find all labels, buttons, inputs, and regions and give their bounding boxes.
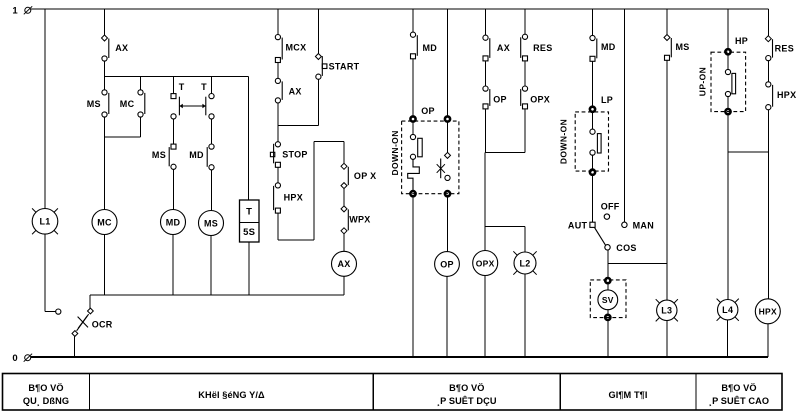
svg-text:MD: MD (423, 43, 438, 53)
svg-text:0: 0 (12, 353, 18, 364)
svg-text:1: 1 (12, 6, 18, 17)
svg-text:MD: MD (166, 217, 181, 227)
svg-text:LP: LP (601, 95, 613, 105)
svg-text:B¶O VÖ: B¶O VÖ (449, 383, 484, 393)
svg-text:UP-ON: UP-ON (698, 67, 708, 96)
svg-text:RES: RES (533, 43, 552, 53)
svg-text:L4: L4 (722, 305, 733, 315)
svg-text:AX: AX (337, 259, 350, 269)
svg-text:OFF: OFF (601, 202, 620, 212)
svg-text:MC: MC (120, 99, 135, 109)
svg-text:5S: 5S (243, 227, 255, 238)
svg-text:OP: OP (440, 259, 454, 269)
svg-text:OP: OP (421, 106, 435, 116)
svg-text:T: T (179, 82, 185, 92)
svg-text:MD: MD (601, 42, 616, 52)
svg-text:HP: HP (735, 36, 748, 46)
svg-text:B¶O VÖ: B¶O VÖ (28, 383, 63, 393)
svg-text:COS: COS (616, 243, 636, 253)
svg-text:¸P SUÊT CAO: ¸P SUÊT CAO (709, 395, 769, 406)
svg-text:HPX: HPX (284, 193, 303, 203)
svg-text:L2: L2 (519, 258, 530, 268)
svg-text:OPX: OPX (530, 95, 550, 105)
svg-text:OP X: OP X (354, 171, 377, 181)
svg-text:KHëI §éNG Y/Δ: KHëI §éNG Y/Δ (198, 390, 265, 400)
svg-text:T: T (201, 82, 207, 92)
svg-text:MD: MD (189, 150, 204, 160)
svg-text:T: T (246, 207, 252, 218)
svg-text:MCX: MCX (286, 42, 307, 52)
svg-text:MS: MS (152, 150, 166, 160)
svg-text:START: START (329, 61, 360, 71)
svg-text:AUT: AUT (568, 221, 588, 231)
svg-text:MS: MS (87, 99, 101, 109)
svg-text:OPX: OPX (476, 258, 495, 268)
svg-text:HPX: HPX (759, 307, 777, 317)
svg-text:MS: MS (676, 42, 690, 52)
svg-text:AX: AX (289, 87, 302, 97)
svg-text:MC: MC (97, 217, 112, 227)
svg-text:AX: AX (115, 43, 128, 53)
svg-text:DOWN-ON: DOWN-ON (559, 119, 569, 164)
svg-text:OCR: OCR (92, 320, 113, 330)
svg-text:OP: OP (493, 95, 507, 105)
svg-text:¸P SUÊT DÇU: ¸P SUÊT DÇU (437, 395, 497, 406)
svg-text:RES: RES (775, 44, 794, 54)
svg-text:STOP: STOP (282, 150, 308, 160)
svg-text:SV: SV (602, 295, 614, 305)
svg-text:HPX: HPX (777, 90, 796, 100)
svg-text:GI¶M T¶I: GI¶M T¶I (608, 390, 647, 400)
svg-text:B¶O VÖ: B¶O VÖ (721, 383, 756, 393)
svg-text:AX: AX (497, 43, 510, 53)
svg-text:MS: MS (204, 218, 218, 228)
svg-text:QU¸ DßNG: QU¸ DßNG (23, 396, 69, 406)
svg-text:DOWN-ON: DOWN-ON (390, 130, 400, 175)
svg-text:MAN: MAN (633, 221, 654, 231)
svg-text:L1: L1 (39, 217, 50, 227)
svg-text:L3: L3 (661, 306, 672, 316)
svg-text:WPX: WPX (349, 215, 370, 225)
